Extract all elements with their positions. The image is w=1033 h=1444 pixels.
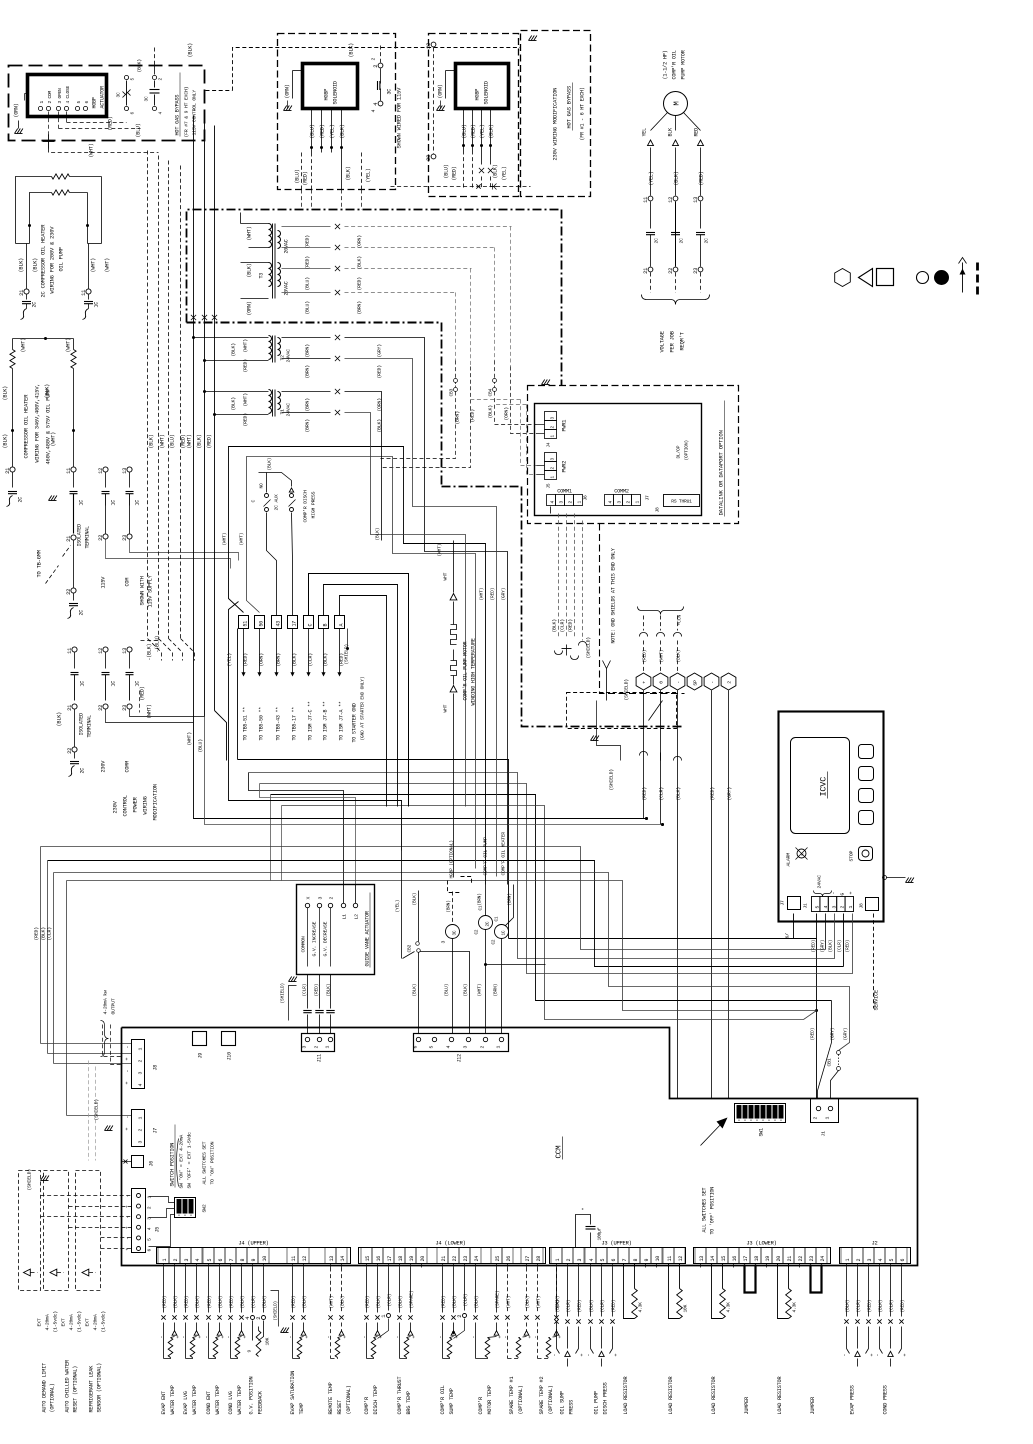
svg-text:1: 1: [496, 1046, 502, 1049]
svg-text:-: -: [125, 1116, 131, 1119]
svg-text:4-20mA: 4-20mA: [93, 1314, 99, 1330]
svg-text:+: +: [126, 1248, 131, 1251]
svg-text:(CLR): (CLR): [47, 927, 53, 941]
svg-text:(BLK): (BLK): [197, 434, 203, 448]
svg-text:(CLR): (CLR): [560, 619, 566, 633]
svg-text:14: 14: [710, 1256, 716, 1262]
svg-text:(BLK): (BLK): [676, 787, 682, 801]
svg-text:SPARE TEMP #1: SPARE TEMP #1: [509, 1377, 515, 1415]
svg-text:(WHT): (WHT): [160, 434, 166, 448]
svg-text:+: +: [903, 1354, 909, 1357]
svg-text:C2: C2: [492, 939, 497, 944]
svg-text:J8: J8: [655, 507, 661, 513]
svg-text:(BLK): (BLK): [302, 1296, 308, 1309]
svg-text:HOT GAS BYPASS: HOT GAS BYPASS: [567, 86, 573, 129]
svg-text:PER JOB: PER JOB: [670, 330, 676, 352]
svg-text:SPARE TEMP #2: SPARE TEMP #2: [539, 1377, 545, 1415]
svg-text:23: 23: [122, 705, 128, 711]
svg-text:SW2: SW2: [202, 1204, 208, 1212]
svg-text:(CLR): (CLR): [302, 984, 308, 997]
svg-text:21: 21: [66, 536, 72, 542]
svg-text:SUMP TEMP: SUMP TEMP: [449, 1388, 455, 1414]
svg-text:1: 1: [635, 501, 641, 504]
svg-text:(CLR): (CLR): [251, 1296, 257, 1309]
svg-text:10K: 10K: [265, 1337, 271, 1345]
svg-text:4: 4: [138, 1084, 144, 1087]
svg-text:21: 21: [643, 268, 649, 274]
svg-text:(WHT): (WHT): [243, 393, 249, 407]
svg-text:22: 22: [67, 748, 73, 754]
svg-text:RESET (OPTIONAL): RESET (OPTIONAL): [73, 1366, 79, 1413]
svg-text:2: 2: [147, 1206, 153, 1209]
svg-text:CB1: CB1: [827, 1058, 833, 1066]
svg-text:4: 4: [446, 1046, 452, 1049]
svg-text:C1: C1: [495, 916, 500, 921]
svg-text:4: 4: [245, 1317, 251, 1320]
svg-text:2 COM: 2 COM: [47, 90, 53, 103]
svg-text:19: 19: [765, 1256, 771, 1262]
svg-text:(RED): (RED): [568, 619, 574, 633]
svg-text:(BLU): (BLU): [444, 164, 450, 178]
svg-text:5: 5: [600, 1259, 606, 1262]
svg-text:3: 3: [441, 941, 447, 944]
svg-text:4-20mA: 4-20mA: [69, 1314, 75, 1330]
svg-text:23: 23: [122, 535, 128, 541]
svg-text:2C AUX: 2C AUX: [274, 494, 280, 510]
svg-text:(BRN): (BRN): [305, 419, 311, 433]
svg-text:AUTO DEMAND LIMIT: AUTO DEMAND LIMIT: [42, 1363, 48, 1413]
svg-text:1: 1: [825, 1117, 831, 1120]
svg-text:3C: 3C: [116, 92, 122, 98]
svg-text:(RED): (RED): [314, 984, 320, 997]
svg-text:3 OPEN: 3 OPEN: [57, 88, 63, 104]
svg-text:5: 5: [889, 1259, 895, 1262]
svg-text:(BLK): (BLK): [218, 1296, 224, 1309]
svg-text:(BRN): (BRN): [455, 411, 461, 425]
svg-text:3: 3: [617, 501, 623, 504]
svg-text:COND ENT: COND ENT: [206, 1391, 212, 1414]
svg-text:EXT: EXT: [61, 1318, 67, 1326]
svg-text:4: 4: [878, 1259, 884, 1262]
svg-text:(BLK): (BLK): [292, 653, 298, 667]
svg-text:3: 3: [318, 897, 324, 900]
svg-text:26: 26: [506, 1256, 512, 1262]
svg-text:T2: T2: [280, 355, 286, 361]
svg-text:2C: 2C: [679, 238, 685, 244]
svg-text:(RED): (RED): [441, 1296, 447, 1309]
svg-text:ALARM: ALARM: [786, 853, 792, 867]
svg-text:COMP'R OIL: COMP'R OIL: [440, 1385, 446, 1414]
svg-text:J3 (LOWER): J3 (LOWER): [746, 1241, 776, 1247]
svg-text:(BLU): (BLU): [136, 123, 142, 137]
svg-text:(RED): (RED): [305, 235, 311, 249]
svg-text:10: 10: [655, 1256, 661, 1262]
svg-text:WHT: WHT: [443, 572, 449, 580]
svg-text:AUTO CHILLED WATER: AUTO CHILLED WATER: [65, 1360, 71, 1413]
svg-text:4-20mA kw: 4-20mA kw: [103, 990, 109, 1014]
svg-text:(BLK): (BLK): [398, 1296, 404, 1309]
svg-text:1C: 1C: [111, 681, 117, 687]
svg-text:(YEL): (YEL): [502, 166, 508, 180]
svg-text:SERVICE: SERVICE: [874, 990, 880, 1010]
svg-text:2C: 2C: [18, 497, 24, 503]
svg-text:COMP'R DISCH: COMP'R DISCH: [303, 490, 309, 522]
svg-text:+: +: [125, 1128, 131, 1131]
svg-text:G.V. POSITION: G.V. POSITION: [249, 1377, 255, 1415]
svg-text:(RED): (RED): [291, 1296, 297, 1309]
svg-text:(CLR): (CLR): [600, 1300, 606, 1313]
svg-text:(RED): (RED): [229, 1296, 235, 1309]
svg-text:PWR1: PWR1: [562, 420, 568, 432]
svg-text:24: 24: [474, 1256, 480, 1262]
svg-text:1: 1: [138, 1117, 144, 1120]
svg-text:(RED): (RED): [207, 434, 213, 448]
svg-text:HOT GAS BYPASS: HOT GAS BYPASS: [175, 95, 181, 136]
svg-text:+: +: [243, 1336, 249, 1339]
svg-text:(BLK): (BLK): [57, 712, 63, 727]
svg-text:2C: 2C: [80, 768, 86, 774]
svg-text:2C: 2C: [654, 238, 660, 244]
svg-text:(GRN): (GRN): [14, 103, 20, 117]
svg-text:5: 5: [207, 1259, 213, 1262]
svg-text:22: 22: [66, 589, 72, 595]
svg-text:4: 4: [373, 103, 379, 106]
svg-text:J8: J8: [859, 903, 865, 909]
svg-text:EXT: EXT: [37, 1318, 43, 1326]
svg-text:-: -: [503, 1336, 509, 1339]
svg-text:12: 12: [668, 197, 674, 203]
svg-text:1: 1: [138, 1048, 144, 1051]
svg-text:PWR2: PWR2: [562, 461, 568, 473]
svg-text:19: 19: [409, 1256, 415, 1262]
svg-text:-: -: [533, 1336, 539, 1339]
svg-text:(RED): (RED): [900, 1300, 906, 1313]
svg-text:+: +: [125, 1058, 131, 1061]
svg-text:(YEL): (YEL): [366, 168, 372, 182]
svg-text:WATER TEMP: WATER TEMP: [192, 1385, 198, 1414]
svg-text:(BLK): (BLK): [488, 405, 494, 419]
svg-text:4: 4: [147, 1227, 153, 1230]
svg-text:SENSOR (OPTIONAL): SENSOR (OPTIONAL): [97, 1363, 103, 1413]
svg-text:TO TB5-43 **: TO TB5-43 **: [276, 707, 282, 741]
svg-text:TO 'OFF' POSITION: TO 'OFF' POSITION: [710, 1187, 716, 1235]
svg-text:(CLR): (CLR): [566, 1300, 572, 1313]
svg-text:(RED): (RED): [867, 1300, 873, 1313]
svg-text:NO: NO: [259, 483, 265, 489]
svg-text:11: 11: [81, 290, 87, 296]
svg-text:(BLK): (BLK): [3, 386, 9, 401]
svg-text:-: -: [159, 1336, 165, 1339]
svg-text:2: 2: [373, 65, 379, 68]
svg-text:CB2: CB2: [407, 944, 413, 952]
svg-text:TO TB5-51 **: TO TB5-51 **: [243, 707, 249, 741]
svg-text:(BRN): (BRN): [305, 344, 311, 358]
svg-text:TO STARTER GND: TO STARTER GND: [352, 703, 358, 742]
svg-text:18: 18: [398, 1256, 404, 1262]
svg-text:17: 17: [743, 1256, 749, 1262]
svg-text:3C: 3C: [453, 930, 458, 935]
svg-text:(BLK): (BLK): [412, 893, 418, 906]
svg-text:YEL: YEL: [642, 128, 648, 137]
svg-text:+: +: [412, 1336, 418, 1339]
svg-text:3: 3: [138, 1072, 144, 1075]
svg-text:J1: J1: [821, 1131, 827, 1137]
svg-text:COMP'R OIL: COMP'R OIL: [672, 50, 678, 79]
svg-text:SHOWN WIRED FOR 115V: SHOWN WIRED FOR 115V: [397, 87, 403, 149]
svg-text:20: 20: [420, 1256, 426, 1262]
svg-text:DATALINK OR DATAPORT OPTION: DATALINK OR DATAPORT OPTION: [718, 430, 725, 515]
svg-text:1C: 1C: [135, 500, 141, 506]
svg-text:(CLR): (CLR): [889, 1300, 895, 1313]
svg-text:(SPARE): (SPARE): [495, 1291, 501, 1309]
svg-text:22: 22: [426, 43, 432, 49]
svg-text:27: 27: [525, 1256, 531, 1262]
svg-text:6: 6: [611, 1259, 617, 1262]
svg-text:(RED): (RED): [305, 256, 311, 270]
svg-text:(BLK): (BLK): [231, 397, 237, 411]
svg-text:(RED): (RED): [452, 166, 458, 180]
svg-text:(1-5vdc): (1-5vdc): [77, 1311, 83, 1333]
svg-text:(GRY): (GRY): [727, 787, 733, 801]
svg-text:115V SUPPLY: 115V SUPPLY: [148, 574, 154, 607]
svg-text:MODIFICATION: MODIFICATION: [153, 784, 159, 820]
svg-text:(RED): (RED): [611, 1300, 617, 1313]
svg-text:51: 51: [243, 621, 249, 627]
svg-text:4: 4: [608, 501, 614, 504]
svg-text:(WHT): (WHT): [479, 588, 485, 601]
svg-text:(BLU): (BLU): [198, 739, 204, 753]
svg-text:(ORN): (ORN): [504, 407, 510, 421]
svg-text:1C: 1C: [80, 681, 86, 687]
svg-text:(BLK): (BLK): [525, 1296, 531, 1309]
svg-text:18: 18: [754, 1256, 760, 1262]
svg-text:(BRN): (BRN): [305, 365, 311, 379]
svg-text:1: 1: [381, 1315, 387, 1318]
svg-text:(BLK): (BLK): [188, 43, 194, 58]
svg-text:22: 22: [452, 1256, 458, 1262]
svg-text:(OPTIONAL): (OPTIONAL): [346, 1385, 352, 1414]
svg-text:11: 11: [667, 1256, 673, 1262]
svg-text:G: G: [840, 893, 846, 896]
svg-text:(YEL): (YEL): [227, 653, 233, 667]
svg-text:1C: 1C: [111, 500, 117, 506]
svg-text:L1: L1: [342, 914, 348, 920]
svg-text:SWITCH POSITION: SWITCH POSITION: [170, 1143, 176, 1187]
svg-text:28: 28: [536, 1256, 542, 1262]
svg-text:2: 2: [566, 1259, 572, 1262]
svg-text:(WHT): (WHT): [187, 434, 193, 448]
svg-text:100µf: 100µf: [597, 1227, 603, 1240]
svg-text:COND LVG: COND LVG: [228, 1391, 234, 1414]
svg-text:J7: J7: [153, 1128, 159, 1134]
svg-text:TEMP: TEMP: [299, 1403, 305, 1415]
svg-text:TO TB-GMM: TO TB-GMM: [37, 550, 43, 577]
svg-text:PRESS: PRESS: [569, 1400, 575, 1415]
svg-text:GUIDE VANE ACTUATOR: GUIDE VANE ACTUATOR: [365, 911, 371, 966]
svg-text:21: 21: [67, 705, 73, 711]
svg-text:(WHT): (WHT): [187, 732, 193, 746]
svg-text:(GND AT STARTER END ONLY): (GND AT STARTER END ONLY): [360, 677, 366, 741]
svg-text:(CLR): (CLR): [856, 1300, 862, 1313]
svg-text:(YEL): (YEL): [480, 124, 486, 138]
svg-text:(OPTIONAL): (OPTIONAL): [50, 1383, 56, 1412]
svg-text:(RED): (RED): [140, 686, 146, 700]
svg-text:SW1: SW1: [759, 1128, 765, 1137]
svg-text:(YEL): (YEL): [330, 124, 336, 138]
svg-text:J6: J6: [149, 1161, 155, 1167]
svg-text:TO 'ON' POSITION: TO 'ON' POSITION: [210, 1141, 216, 1184]
svg-text:4 CLOSE: 4 CLOSE: [65, 85, 71, 103]
svg-text:5: 5: [429, 1046, 435, 1049]
svg-text:JUMPER: JUMPER: [744, 1397, 750, 1415]
svg-text:13: 13: [699, 1256, 705, 1262]
svg-text:(BLK): (BLK): [173, 1296, 179, 1309]
svg-text:(RED): (RED): [357, 277, 363, 291]
svg-text:(WHT): (WHT): [21, 338, 27, 353]
svg-text:15: 15: [721, 1256, 727, 1262]
svg-text:2C: 2C: [79, 610, 85, 616]
svg-text:(GRN): (GRN): [285, 84, 291, 98]
svg-text:2: 2: [626, 501, 632, 504]
svg-text:20: 20: [776, 1256, 782, 1262]
svg-text:J9: J9: [198, 1053, 204, 1059]
svg-text:LOAD RESISTOR: LOAD RESISTOR: [711, 1377, 717, 1415]
svg-text:COMP'R THRUST: COMP'R THRUST: [397, 1377, 403, 1415]
svg-text:1: 1: [325, 1046, 331, 1049]
svg-text:TERMINAL: TERMINAL: [87, 715, 93, 738]
svg-text:2: 2: [568, 501, 574, 504]
svg-text:12: 12: [302, 1256, 308, 1262]
svg-text:L2: L2: [354, 914, 360, 920]
svg-text:LOAD RESISTOR: LOAD RESISTOR: [777, 1377, 783, 1415]
svg-text:OUTPUT: OUTPUT: [111, 998, 117, 1014]
svg-text:(RED): (RED): [845, 940, 851, 953]
svg-text:T3: T3: [259, 273, 265, 279]
svg-text:(SHIELD): (SHIELD): [586, 637, 592, 659]
svg-text:22: 22: [668, 268, 674, 274]
svg-text:(BLK): (BLK): [240, 1296, 246, 1309]
svg-text:HGBP: HGBP: [92, 97, 98, 108]
svg-text:(SHIELD): (SHIELD): [609, 769, 615, 791]
svg-text:6: 6: [218, 1259, 224, 1262]
svg-text:(BLU): (BLU): [305, 277, 311, 291]
svg-text:(BLU): (BLU): [462, 124, 468, 138]
svg-text:(BLU): (BLU): [305, 301, 311, 315]
svg-text:11: 11: [66, 468, 72, 474]
svg-text:TO TB5-17 **: TO TB5-17 **: [292, 707, 298, 741]
svg-text:(WHT): (WHT): [659, 650, 665, 663]
svg-text:-: -: [362, 1336, 368, 1339]
svg-text:(RED): (RED): [710, 787, 716, 801]
svg-text:WIRING: WIRING: [143, 796, 149, 814]
svg-text:(GRY): (GRY): [843, 1028, 849, 1041]
svg-text:REQM'T: REQM'T: [680, 331, 686, 350]
svg-text:(CLR): (CLR): [837, 940, 843, 953]
svg-text:16: 16: [732, 1256, 738, 1262]
svg-text:WHT: WHT: [443, 704, 449, 712]
svg-text:(RED): (RED): [243, 653, 249, 667]
svg-text:21: 21: [5, 468, 11, 474]
svg-text:STOP: STOP: [849, 850, 855, 861]
svg-text:TO TB5-50 **: TO TB5-50 **: [259, 707, 265, 741]
svg-text:+CCN: +CCN: [677, 614, 683, 625]
svg-text:(BLK): (BLK): [376, 1296, 382, 1309]
svg-text:RS THRU1: RS THRU1: [671, 499, 692, 505]
svg-text:(BLK): (BLK): [33, 258, 39, 273]
svg-text:(BLK): (BLK): [3, 434, 9, 449]
svg-text:ALL SWITCHES SET: ALL SWITCHES SET: [202, 1141, 208, 1184]
svg-text:+: +: [125, 1082, 131, 1085]
svg-text:-(BLU): -(BLU): [155, 635, 161, 652]
svg-text:17: 17: [292, 621, 298, 627]
svg-text:(BLK): (BLK): [326, 984, 332, 997]
svg-text:2: 2: [138, 1060, 144, 1063]
svg-text:24VAC: 24VAC: [286, 403, 292, 417]
svg-text:COMP'R OIL PUMP: COMP'R OIL PUMP: [483, 837, 489, 876]
svg-text:+: +: [849, 892, 855, 895]
svg-text:(1-5vdc): (1-5vdc): [101, 1311, 107, 1333]
svg-text:2: 2: [329, 897, 335, 900]
svg-text:(RED): (RED): [642, 787, 648, 801]
svg-text:A: A: [339, 624, 345, 627]
svg-text:+: +: [305, 1336, 311, 1339]
svg-text:460V,480V & 575V OIL PUMP: 460V,480V & 575V OIL PUMP: [46, 389, 52, 465]
svg-text:(BRN): (BRN): [508, 893, 513, 905]
svg-text:VOLTAGE: VOLTAGE: [660, 331, 666, 352]
svg-text:COND PRESS: COND PRESS: [883, 1385, 889, 1414]
svg-text:22: 22: [98, 705, 104, 711]
svg-text:COMMON: COMMON: [301, 936, 307, 952]
svg-text:4.3K: 4.3K: [638, 1302, 644, 1313]
svg-text:(BLK): (BLK): [41, 927, 47, 941]
svg-text:(RED): (RED): [34, 927, 40, 941]
svg-text:2C COMPRESSOR OIL HEATER: 2C COMPRESSOR OIL HEATER: [41, 224, 47, 298]
svg-text:(WHT): (WHT): [247, 226, 253, 240]
svg-text:115V: 115V: [101, 576, 107, 589]
svg-text:WIRING FOR 200V & 230V: WIRING FOR 200V & 230V: [50, 226, 56, 294]
svg-text:(RED): (RED): [577, 1300, 583, 1313]
svg-text:(SHIELD): (SHIELD): [280, 983, 286, 1003]
svg-text:1: 1: [848, 906, 854, 909]
svg-text:J2: J2: [871, 1241, 877, 1247]
svg-text:21: 21: [441, 1256, 447, 1262]
svg-text:(SHIELD): (SHIELD): [344, 644, 350, 664]
svg-text:NOTE: GND SHIELDS AT THIS END: NOTE: GND SHIELDS AT THIS END ONLY: [611, 548, 617, 643]
svg-text:(BLK): (BLK): [489, 124, 495, 138]
svg-text:(GRY): (GRY): [830, 1028, 836, 1041]
svg-text:COMM1: COMM1: [557, 489, 572, 495]
svg-text:JUMPER: JUMPER: [810, 1397, 816, 1415]
svg-text:(WHT): (WHT): [506, 1296, 512, 1309]
svg-text:(BLK): (BLK): [676, 650, 682, 663]
svg-text:-: -: [471, 1336, 477, 1339]
svg-text:23: 23: [809, 1256, 815, 1262]
svg-text:12: 12: [98, 648, 104, 654]
svg-text:+: +: [343, 1336, 349, 1339]
svg-text:J5: J5: [155, 1227, 161, 1233]
svg-text:(BLK): (BLK): [375, 528, 381, 541]
svg-text:(BLK): (BLK): [828, 940, 834, 953]
svg-text:230V: 230V: [101, 760, 107, 773]
svg-text:WINDING HIGH TEMPERATURE: WINDING HIGH TEMPERATURE: [471, 638, 477, 705]
svg-text:13: 13: [122, 468, 128, 474]
svg-text:14: 14: [340, 1256, 346, 1262]
svg-text:12: 12: [98, 468, 104, 474]
svg-text:2: 2: [813, 1117, 819, 1120]
svg-text:TO ISM J7-B **: TO ISM J7-B **: [323, 701, 329, 740]
svg-text:+: +: [642, 681, 647, 684]
svg-text:(SPARE): (SPARE): [409, 1291, 415, 1309]
